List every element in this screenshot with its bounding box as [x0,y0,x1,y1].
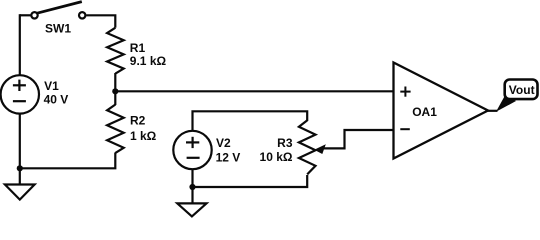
node junction V2 bottom [189,184,195,190]
wire left rail vertical to V1 top [19,14,21,75]
svg-text:10 kΩ: 10 kΩ [260,150,293,164]
voltage source V2 [173,131,211,169]
wire bottom loop node to R3 bottom [193,175,308,187]
wire V2 top loop to R3 top [193,111,308,131]
svg-text:R1: R1 [130,41,146,55]
wire R1 bottom to R2 top [114,73,116,105]
svg-text:SW1: SW1 [45,22,71,36]
op-amp OA1 [394,63,489,159]
ground (below V2) [177,203,206,216]
wire SW1 right terminal to R1 top [86,15,115,27]
wire ground node to R2 bottom [20,153,116,169]
svg-text:R2: R2 [130,114,146,128]
voltage source V1 [1,75,39,113]
switch SW1 [31,2,85,19]
wire V2 bottom to ground node [191,169,193,187]
wire ground stub below node [19,168,21,184]
svg-text:9.1 kΩ: 9.1 kΩ [130,54,167,68]
wire left rail top horizontal [20,14,31,16]
resistor R2 [107,105,124,153]
svg-text:40 V: 40 V [44,93,69,107]
wire V1 bottom to ground node [19,113,21,168]
potentiometer R3 [299,120,316,174]
ground (left) [5,185,35,200]
svg-text:12 V: 12 V [216,151,241,165]
wire ground stub below V2 [191,187,193,203]
node Vout flag tail [496,95,516,112]
resistor R1 [107,28,124,74]
wire op-amp output stub [487,110,498,112]
svg-text:V1: V1 [44,79,59,93]
node junction ground-left [17,165,23,171]
svg-text:1 kΩ: 1 kΩ [130,129,157,143]
svg-text:R3: R3 [277,136,293,150]
svg-text:V2: V2 [216,136,231,150]
node Vout label box [505,80,538,100]
wire node to op-amp plus input [115,90,393,92]
svg-text:OA1: OA1 [412,105,437,119]
svg-text:Vout: Vout [509,83,535,97]
wiper arrow of R3 [314,144,326,154]
node junction R1-R2 [112,88,118,94]
wire wiper to op-amp minus input [320,130,394,148]
